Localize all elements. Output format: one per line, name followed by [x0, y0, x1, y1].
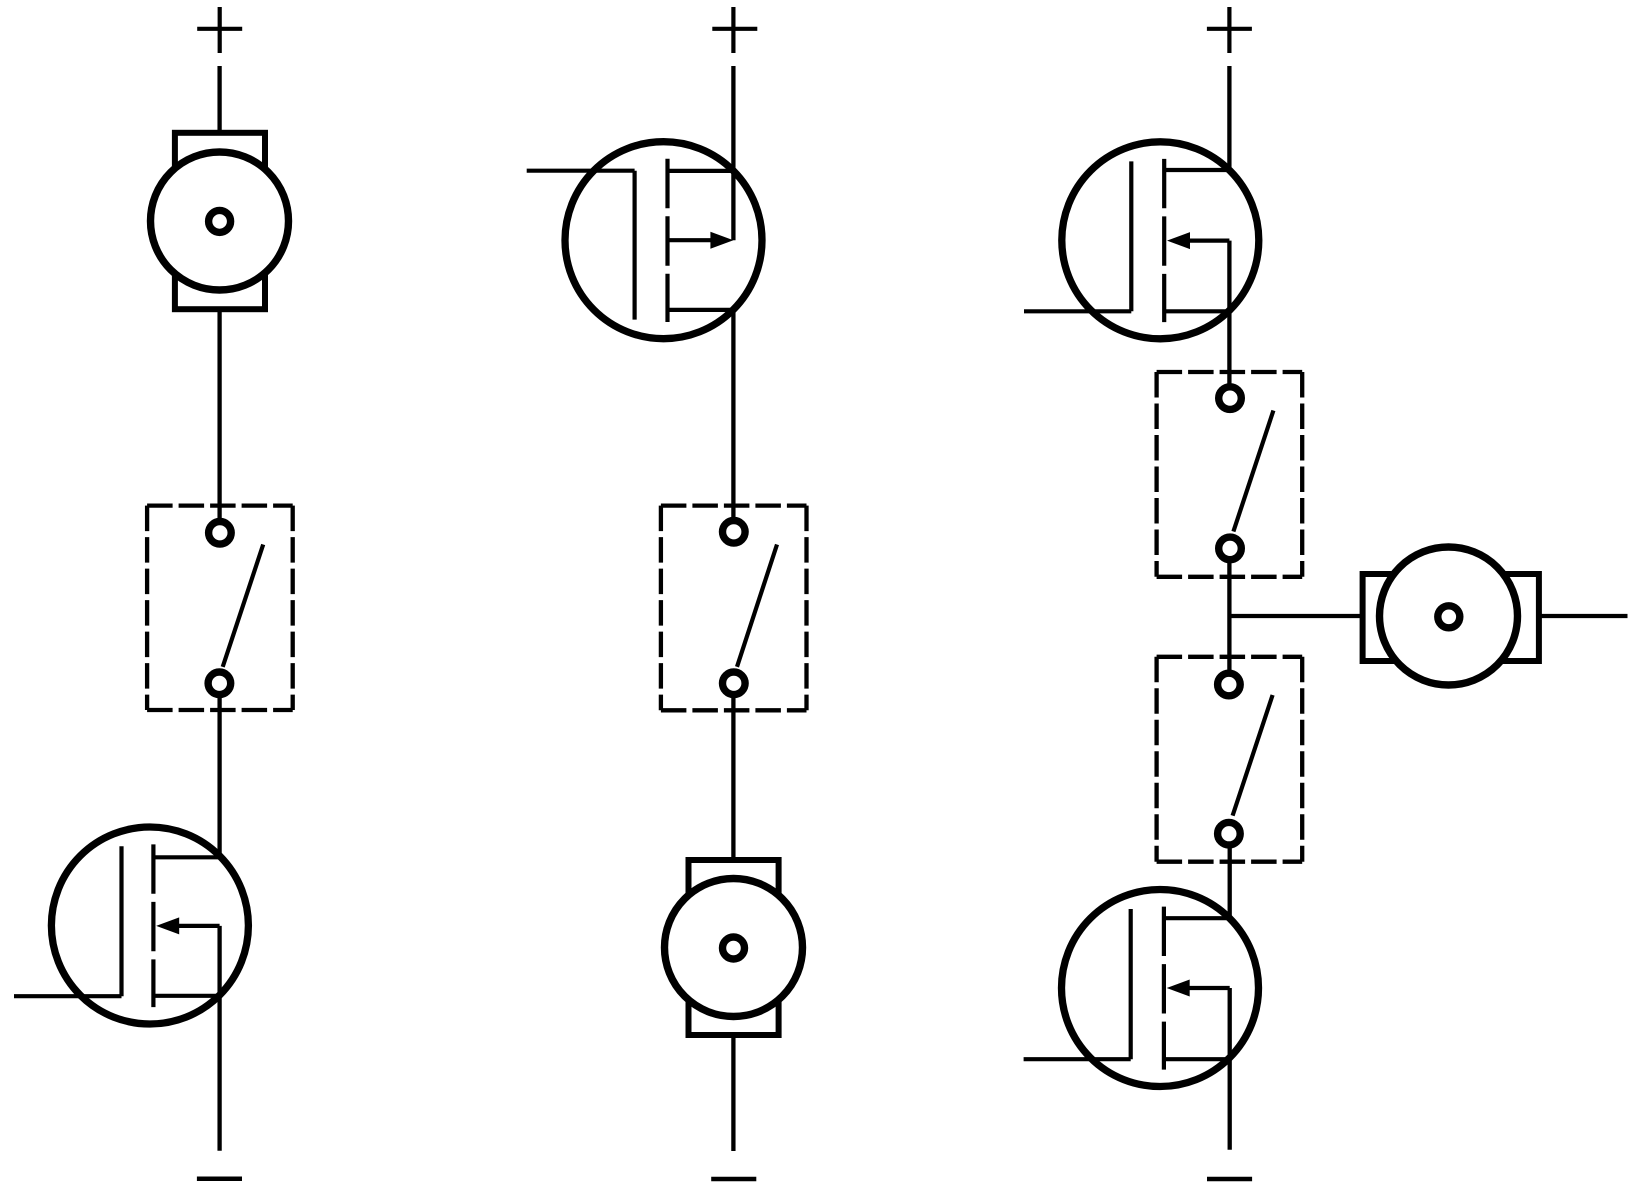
switch S2 bottom terminal	[723, 672, 746, 695]
Q3 channel (dashed)	[1162, 159, 1166, 322]
Q4 gate bar	[1129, 909, 1133, 1059]
Q2 source lead	[668, 308, 734, 312]
switch S1 bottom terminal	[208, 672, 231, 695]
battery positive terminal + (branch 2)	[712, 7, 757, 53]
Q4 body circle	[1062, 890, 1259, 1087]
wire: switch S4 to MOSFET Q4 drain	[1228, 834, 1232, 919]
wire: MOSFET Q1 source to ground	[217, 926, 221, 1151]
switch S4 top terminal	[1218, 673, 1241, 696]
Q2 body circle	[565, 142, 762, 339]
wire: motor M1 to switch S1	[217, 308, 221, 533]
wire: MOSFET Q3 source to switch S3	[1227, 241, 1231, 399]
switch S2 (dashed enclosure)	[661, 506, 807, 711]
wire: + to MOSFET Q2 drain	[731, 66, 735, 240]
Q2 gate lead	[527, 169, 635, 173]
switch S3 (dashed enclosure, upper)	[1157, 372, 1303, 577]
Q1 drain lead	[153, 855, 219, 859]
motor M3 (horizontal, circle with hub and end brackets)	[1363, 547, 1539, 685]
wire: MOSFET Q2 source to switch S2	[731, 310, 735, 532]
battery negative bar (branch 3)	[1207, 1177, 1252, 1182]
Q3 source lead	[1164, 309, 1229, 313]
switch S1 (dashed enclosure)	[147, 506, 293, 710]
MOSFET Q4 (N-channel, gate lead lower-left)	[1024, 890, 1259, 1087]
Q1 channel (dashed)	[151, 844, 155, 1007]
battery negative bar (branch 1)	[197, 1176, 242, 1181]
switch S3 top terminal	[1219, 387, 1242, 410]
Q3 gate lead	[1024, 309, 1131, 313]
Q1 gate lead	[14, 994, 122, 998]
wire: switch S3 through node A to switch S4	[1227, 548, 1231, 684]
wire: motor M2 to ground	[731, 1035, 735, 1151]
battery positive terminal + (branch 3)	[1207, 7, 1252, 53]
Q1 source lead	[153, 994, 219, 998]
Q3 gate bar	[1129, 161, 1133, 311]
Q4 body arrow (points left into channel)	[1188, 986, 1230, 990]
wire: switch S1 to MOSFET Q1 drain	[217, 683, 221, 857]
switch S4 lever	[1233, 695, 1273, 816]
wire: MOSFET Q4 source to ground	[1228, 988, 1232, 1150]
switch S4 bottom terminal	[1218, 822, 1241, 845]
MOSFET Q2 (P-channel, gate lead upper-left, arrow points right)	[527, 142, 762, 339]
battery negative bar (branch 2)	[711, 1177, 756, 1182]
switch S2 lever	[737, 545, 777, 667]
battery positive terminal + (branch 1)	[197, 7, 242, 53]
node A: branch wire to motor M3	[1229, 614, 1361, 618]
switch S2 top terminal	[723, 521, 746, 544]
Q3 drain lead	[1164, 168, 1229, 172]
Q4 drain lead	[1164, 916, 1230, 920]
Q2 drain lead	[668, 169, 734, 173]
Q1 body arrow (points left into channel)	[178, 924, 220, 928]
Q2 channel (dashed)	[665, 159, 669, 322]
wire: + to MOSFET Q3 drain	[1227, 66, 1231, 170]
switch S1 lever	[223, 545, 264, 667]
Q1 gate bar	[119, 846, 123, 996]
switch S3 bottom terminal	[1219, 537, 1242, 560]
switch S3 lever	[1233, 411, 1273, 532]
MOSFET Q1 (N-channel, gate lead lower-left)	[14, 827, 248, 1024]
motor M2 (circle with hub and end brackets)	[665, 860, 803, 1035]
Q3 body circle	[1062, 142, 1259, 339]
switch S1 top terminal	[209, 522, 232, 545]
Q1 body circle	[51, 827, 248, 1024]
motor M1 (circle with hub and end brackets)	[151, 133, 289, 309]
Q2 body arrow (points right to source line)	[668, 238, 713, 242]
Q4 gate lead	[1024, 1057, 1131, 1061]
wire: switch S2 to motor M2	[731, 683, 735, 860]
Q3 body arrow (points left into channel)	[1188, 239, 1229, 243]
Q4 source lead	[1164, 1057, 1230, 1061]
switch S4 (dashed enclosure, lower)	[1157, 657, 1303, 862]
MOSFET Q3 (N-channel, gate lead lower-left)	[1024, 142, 1259, 339]
wire: motor M3 to right edge	[1540, 614, 1628, 618]
wire: + to motor M1	[217, 66, 221, 133]
Q2 gate bar	[632, 171, 636, 320]
Q4 channel (dashed)	[1162, 907, 1166, 1070]
